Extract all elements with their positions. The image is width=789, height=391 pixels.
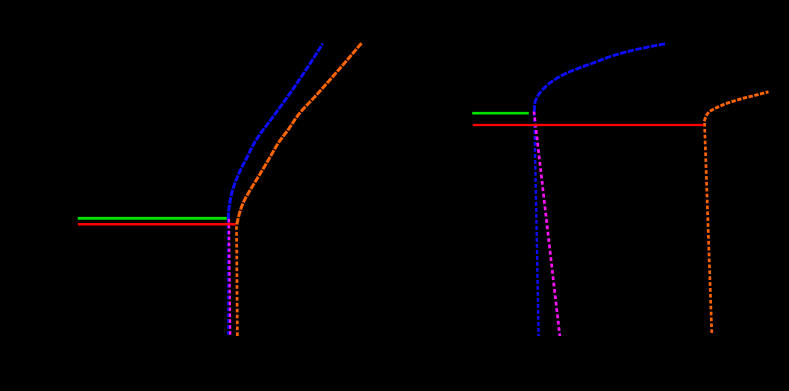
magenta dashed vertical (left) [229,219,230,337]
orange dashed near-vertical (right) [705,123,712,334]
orange dotted curve (left) [237,43,362,225]
red horizontal line (right) [473,124,704,126]
green horizontal line (left) [78,217,227,220]
green horizontal line (right) [472,112,529,115]
red horizontal line (left) [78,223,236,226]
magenta dashed slanted line (right) [534,111,560,336]
orange dotted curve (right) [704,92,768,122]
blue dashed vertical (left) [227,219,229,337]
blue dotted curve (left) [228,44,322,219]
blue dotted curve (right) [534,44,666,112]
blue dashed near-vertical (right) [534,112,538,336]
orange dashed vertical (left) [235,226,239,336]
